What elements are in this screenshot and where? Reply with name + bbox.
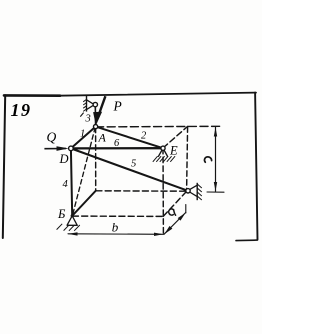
svg-text:Q: Q	[47, 130, 57, 145]
svg-text:19: 19	[11, 100, 32, 120]
extension line below BR for a	[185, 205, 187, 214]
rod 4 (D-B)	[71, 148, 72, 215]
node A	[94, 125, 98, 129]
frame bottom-right stub	[236, 239, 257, 242]
support at E (pin with hatched ground)	[153, 148, 175, 162]
dimension label c	[204, 157, 211, 162]
wire: dashed edge B-FR	[72, 215, 163, 217]
wire: solid edge B-BL	[72, 191, 96, 216]
dimension c line	[215, 127, 217, 191]
arrow a upper	[178, 213, 186, 221]
rod 1 (D-A)	[71, 127, 96, 149]
wire: dashed edge A-BL	[95, 127, 97, 190]
svg-text:D: D	[59, 152, 69, 166]
dimension arrows	[68, 127, 217, 236]
frame right border	[255, 93, 257, 240]
frame left border	[3, 95, 5, 238]
wire: dashed edge E-FR extended to b-line	[162, 148, 164, 234]
dimension label a	[169, 209, 176, 215]
wire: dashed edge F2-BR	[187, 127, 188, 191]
svg-text:A: A	[98, 131, 107, 145]
wire: dashed diagonal A-B	[73, 127, 96, 215]
force P arrow	[93, 96, 105, 125]
rod 3 (pin-A)	[94, 105, 96, 127]
rod 2 (A-E)	[96, 127, 163, 149]
node D	[69, 146, 74, 151]
frame top border	[4, 94, 60, 97]
force Q arrow	[44, 146, 68, 151]
arrow c bottom	[214, 182, 217, 191]
node B	[71, 214, 74, 217]
rod 5 (D-BR)	[71, 148, 188, 190]
arrow a lower	[164, 226, 172, 234]
dimension b line	[68, 233, 163, 236]
svg-text:E: E	[169, 144, 178, 158]
node E	[161, 146, 165, 150]
support at B (triangle with hatching)	[57, 216, 80, 231]
svg-text:6: 6	[114, 138, 120, 149]
svg-text:2: 2	[141, 131, 147, 142]
stray dash left of label 3	[80, 113, 83, 117]
svg-text:Б: Б	[57, 207, 66, 221]
wire: dashed edge FR-BR	[163, 191, 186, 216]
extension line bottom for c	[207, 191, 224, 193]
pin circle at wall	[93, 102, 97, 106]
svg-text:4: 4	[63, 179, 69, 190]
wire: dashed top back edge A-F2 with extension to c-line	[96, 125, 221, 128]
svg-text:5: 5	[131, 159, 136, 170]
svg-text:b: b	[112, 220, 119, 235]
rod 6 (D-E)	[71, 147, 163, 149]
node BR	[186, 189, 190, 193]
arrow c top	[214, 127, 217, 136]
svg-text:1: 1	[80, 129, 85, 140]
arrow b right	[154, 233, 163, 236]
support wall pin (top, for rod 3)	[80, 95, 93, 116]
wire: dashed edge E-F2	[163, 126, 188, 148]
svg-text:3: 3	[85, 114, 91, 125]
svg-text:P: P	[113, 99, 122, 114]
support at BR (pin bracket on hatched wall)	[190, 183, 202, 200]
arrow b left	[68, 232, 78, 235]
dimension a line	[164, 212, 186, 234]
wire: dashed edge BL-BR	[96, 190, 186, 192]
